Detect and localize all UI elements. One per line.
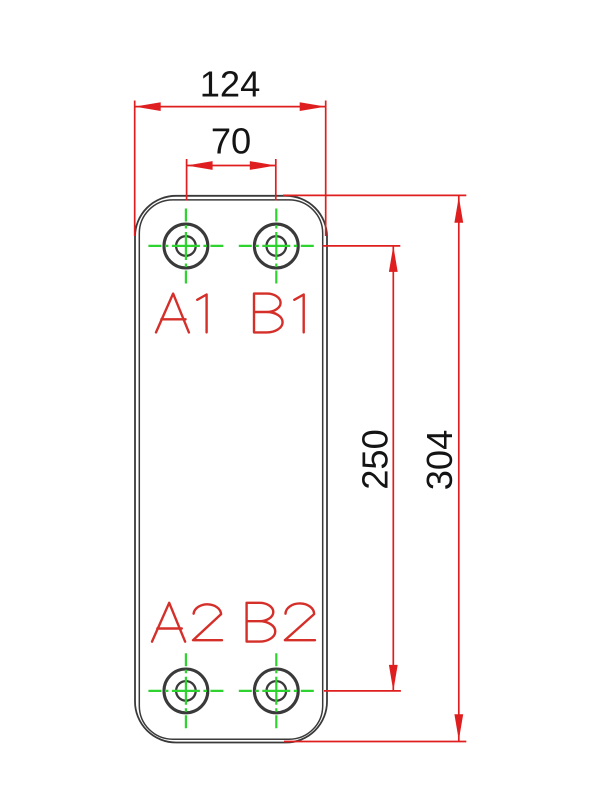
svg-text:250: 250 — [355, 429, 396, 490]
port B2 outer circle — [254, 669, 298, 713]
dimension 70 line — [187, 165, 276, 167]
centerline A1 horizontal — [148, 245, 223, 247]
label B1 — [254, 294, 304, 333]
dimension 70 extension line right — [275, 159, 277, 201]
svg-text:304: 304 — [419, 430, 460, 491]
dimension 304 extension line bottom — [284, 741, 466, 743]
centerline B2 horizontal — [239, 690, 314, 692]
dimension 250 arrowhead top — [389, 246, 398, 272]
centerline B1 vertical — [275, 209, 277, 285]
dimension 250 arrowhead bottom — [389, 665, 398, 691]
dimension 70 extension line left — [186, 159, 188, 201]
centerline A2 horizontal — [148, 690, 223, 692]
dimension 70 arrowhead right — [250, 161, 276, 170]
dimension 124 extension line left — [134, 101, 136, 237]
centerline B1 horizontal — [239, 245, 314, 247]
centerline B2 vertical — [275, 653, 277, 729]
centerline A1 vertical — [185, 209, 187, 285]
port A2 inner circle — [176, 681, 196, 701]
port B1 inner circle — [267, 236, 287, 256]
dimension 304 arrowhead top — [454, 197, 463, 223]
dimension 304 extension line top — [283, 194, 466, 196]
plate inner contour — [139, 200, 322, 739]
label B2 — [247, 603, 315, 642]
svg-text:70: 70 — [211, 121, 251, 162]
port A1 inner circle — [176, 236, 196, 256]
svg-text:124: 124 — [200, 64, 261, 105]
port A1 outer circle — [164, 224, 208, 268]
port A2 outer circle — [164, 669, 208, 713]
label A1 — [156, 294, 207, 333]
label A2 — [152, 603, 222, 642]
dimension 304 arrowhead bottom — [454, 714, 463, 740]
port B1 outer circle — [254, 224, 298, 268]
dimension 70 arrowhead left — [187, 161, 213, 170]
dimension 304 line — [458, 196, 460, 741]
dimension 250 line — [392, 246, 394, 691]
plate outer contour — [135, 196, 327, 743]
dimension 124 arrowhead left — [135, 102, 161, 111]
dimension 250 extension line top — [323, 245, 401, 247]
dimension 250 extension line bottom — [324, 690, 401, 692]
dimension 124 line — [135, 106, 326, 108]
dimension 124 extension line right — [325, 101, 327, 237]
centerline A2 vertical — [185, 653, 187, 729]
dimension 124 arrowhead right — [300, 102, 326, 111]
port B2 inner circle — [267, 681, 287, 701]
